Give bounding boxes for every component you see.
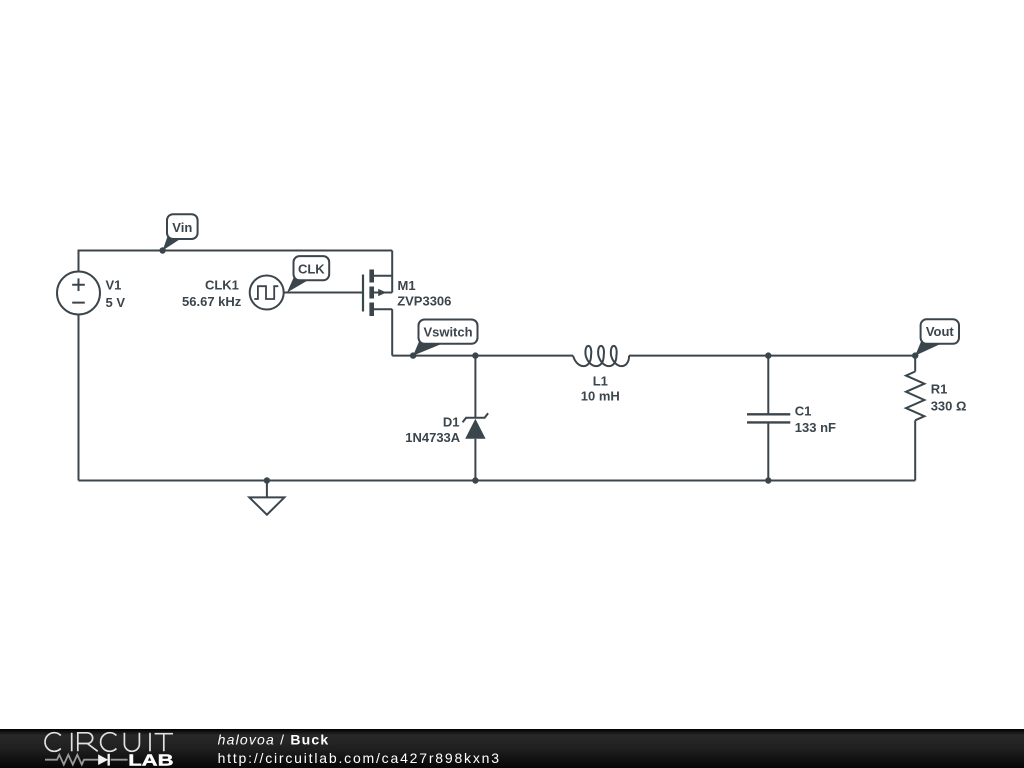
CircuitLab logo CIRCUIT	[45, 733, 173, 752]
node Vout flag	[912, 319, 959, 359]
wire CLK output to gate	[284, 292, 363, 294]
resistor R1	[906, 372, 924, 421]
junction D1 top on Vswitch rail	[472, 352, 478, 358]
wire D1 bottom lead	[474, 439, 476, 481]
inductor L1	[573, 346, 629, 366]
logo resistor-diode squiggle	[45, 755, 128, 765]
wire M1 drain vertical	[391, 309, 393, 355]
svg-text:CLK1: CLK1	[205, 278, 239, 293]
wire C1 top lead	[767, 356, 769, 415]
node CLK flag	[287, 256, 329, 292]
svg-text:Vout: Vout	[926, 324, 955, 339]
svg-text:10 mH: 10 mH	[581, 388, 620, 403]
svg-text:5 V: 5 V	[106, 295, 126, 310]
svg-text:D1: D1	[443, 414, 460, 429]
junction D1 bottom on ground rail	[472, 477, 478, 483]
node Vswitch flag	[410, 320, 478, 359]
svg-text:ZVP3306: ZVP3306	[397, 294, 451, 309]
logo diode	[98, 754, 108, 765]
footer bar	[0, 729, 1024, 768]
svg-text:CLK: CLK	[298, 261, 325, 276]
svg-text:1N4733A: 1N4733A	[405, 430, 461, 445]
wire V1 bottom lead	[78, 315, 80, 481]
wire bottom ground rail	[79, 480, 916, 482]
svg-text:Vin: Vin	[172, 220, 192, 235]
svg-text:133 nF: 133 nF	[795, 420, 836, 435]
voltage source V1	[57, 272, 100, 315]
svg-text:M1: M1	[398, 278, 416, 293]
junction ground tap on ground rail	[264, 477, 270, 483]
wire inductor to Vout rail	[629, 355, 915, 357]
wire top rail Vin	[79, 251, 393, 272]
clock source CLK1	[250, 276, 284, 310]
svg-text:56.67 kHz: 56.67 kHz	[182, 294, 242, 309]
svg-text:Vswitch: Vswitch	[423, 324, 472, 339]
wire R1 top lead	[914, 356, 916, 372]
svg-text:http://circuitlab.com/ca427r89: http://circuitlab.com/ca427r898kxn3	[218, 750, 501, 766]
svg-text:halovoa / Buck: halovoa / Buck	[218, 732, 330, 748]
svg-text:V1: V1	[106, 278, 122, 293]
wire M1 source vertical	[391, 251, 393, 293]
capacitor C1	[747, 414, 790, 422]
junction C1 top on Vout rail	[765, 352, 771, 358]
svg-text:330 Ω: 330 Ω	[931, 398, 967, 413]
wire C1 bottom lead	[767, 422, 769, 480]
svg-text:R1: R1	[931, 381, 948, 396]
wire R1 bottom lead	[914, 420, 916, 480]
wire ground stub	[266, 481, 268, 498]
svg-text:L1: L1	[593, 373, 608, 388]
wire D1 top lead	[474, 356, 476, 418]
ground	[249, 497, 284, 514]
svg-text:LAB: LAB	[128, 752, 173, 768]
zener diode D1	[463, 413, 489, 439]
junction C1 bottom on ground rail	[765, 477, 771, 483]
transistor M1 PMOS	[363, 270, 392, 317]
wire Vswitch rail	[392, 355, 573, 357]
svg-text:C1: C1	[795, 404, 812, 419]
node Vin flag	[159, 214, 197, 254]
